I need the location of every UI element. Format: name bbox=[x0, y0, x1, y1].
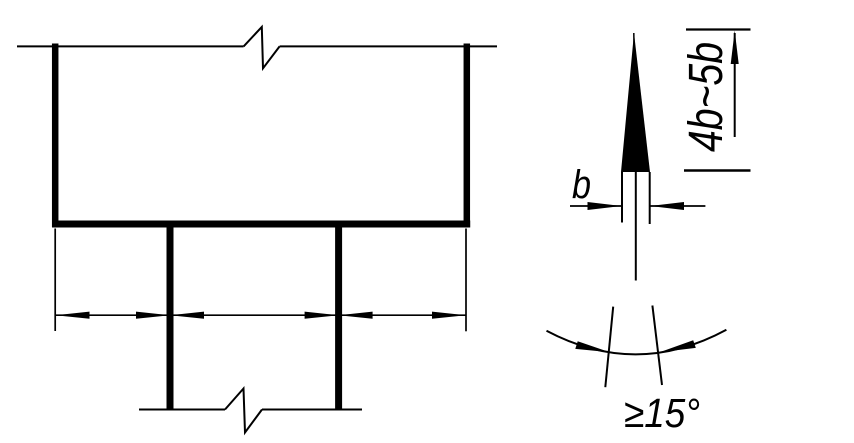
arc arrow left (points right-down) bbox=[575, 341, 610, 352]
dimension line bbox=[55, 314, 466, 316]
vertical dimension line 4b~5b bbox=[734, 33, 736, 137]
dim arrow 6 (points right at right extension) bbox=[432, 312, 466, 319]
wire: top object line left segment bbox=[17, 45, 244, 47]
shaft outline left side bbox=[621, 172, 623, 223]
wire: bottom object line left segment bbox=[139, 409, 225, 411]
vertical dim arrow (points up) bbox=[731, 31, 739, 65]
extension line left bbox=[54, 229, 56, 332]
angle leg left bbox=[605, 307, 613, 388]
break symbol top (zigzag) bbox=[244, 27, 280, 68]
extension line right bbox=[465, 229, 467, 332]
dim arrow 2 (points right at wall 1) bbox=[136, 312, 170, 319]
wire: bottom object line right segment bbox=[262, 409, 362, 411]
svg-text:≥15°: ≥15° bbox=[624, 390, 700, 436]
svg-text:4b~5b: 4b~5b bbox=[680, 42, 733, 152]
arrowhead tip spike bbox=[633, 33, 636, 62]
arrowhead blade (filled triangle) bbox=[621, 33, 650, 172]
shaft outline right side bbox=[649, 172, 651, 224]
b dim arrow right (points left) bbox=[650, 202, 684, 210]
slab soffit (thick horizontal) bbox=[52, 221, 470, 228]
wire: top object line right segment bbox=[280, 45, 497, 47]
break symbol bottom (zigzag) bbox=[225, 389, 262, 433]
angle leg right bbox=[652, 306, 662, 386]
extension line top of 4b~5b bbox=[686, 28, 751, 30]
arc arrow right (points left-down) bbox=[660, 340, 696, 352]
b dimension line right tail bbox=[650, 205, 705, 207]
dim arrow 5 (points left at wall 2) bbox=[339, 312, 373, 319]
b dim arrow left (points right) bbox=[588, 202, 622, 210]
lower wall 1 (thick vertical) bbox=[167, 227, 174, 410]
dim arrow 1 (points left at left extension) bbox=[56, 312, 90, 319]
extension line bottom of 4b~5b bbox=[684, 169, 751, 172]
angle dimension arc bbox=[547, 330, 727, 355]
left wall (thick vertical) bbox=[52, 44, 59, 228]
dim arrow 3 (points left at wall 1) bbox=[170, 312, 204, 319]
svg-text:b: b bbox=[572, 163, 591, 207]
b dimension line left tail bbox=[570, 205, 621, 207]
lower wall 2 (thick vertical) bbox=[335, 227, 342, 410]
dim arrow 4 (points right at wall 2) bbox=[305, 312, 339, 319]
right wall (thick vertical) bbox=[464, 44, 471, 228]
shaft center line bbox=[635, 172, 637, 281]
